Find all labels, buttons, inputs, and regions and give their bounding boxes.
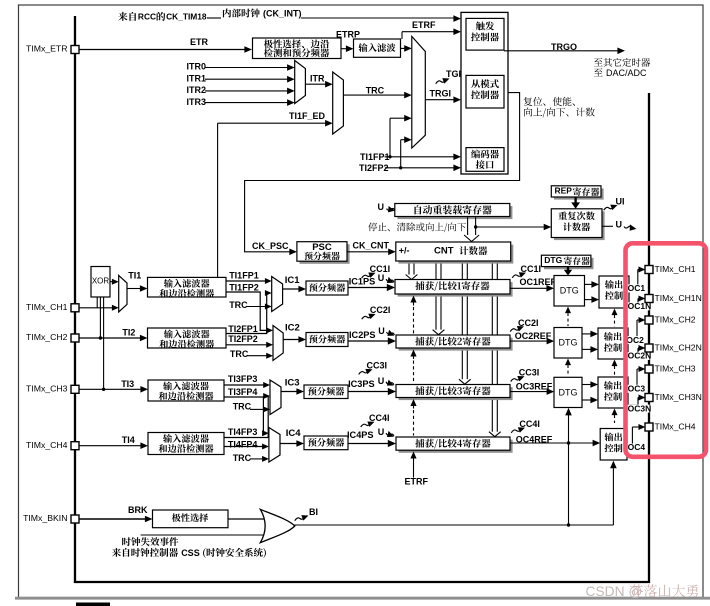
- svg-text:RCC: RCC: [138, 11, 156, 21]
- svg-text:U: U: [378, 427, 385, 437]
- svg-text:ETRF: ETRF: [412, 20, 436, 30]
- svg-text:TI1: TI1: [128, 271, 141, 281]
- svg-text:ETRF: ETRF: [405, 477, 429, 487]
- svg-text:CC3I: CC3I: [367, 360, 388, 370]
- svg-text:TIMx_CH1: TIMx_CH1: [655, 264, 696, 274]
- svg-text:IC3: IC3: [285, 378, 300, 389]
- svg-text:DTG: DTG: [560, 286, 579, 296]
- svg-text:BRK: BRK: [128, 505, 148, 515]
- svg-text:CC4I: CC4I: [369, 413, 390, 423]
- svg-text:U: U: [616, 219, 623, 229]
- svg-text:IC3PS: IC3PS: [348, 379, 375, 389]
- svg-text:TIMx_CH3: TIMx_CH3: [26, 383, 68, 393]
- svg-text:IC1PS: IC1PS: [349, 276, 376, 286]
- svg-text:DTG: DTG: [559, 338, 578, 348]
- svg-text:TI2FP2: TI2FP2: [359, 163, 389, 173]
- svg-text:TIMx_BKIN: TIMx_BKIN: [23, 513, 67, 523]
- svg-text:CK_PSC: CK_PSC: [252, 241, 289, 251]
- svg-text:CNT: CNT: [434, 246, 454, 257]
- svg-text:TRC: TRC: [233, 453, 252, 463]
- svg-text:OC3N: OC3N: [628, 403, 652, 413]
- svg-text:TI4FP3: TI4FP3: [228, 427, 258, 437]
- svg-text:U: U: [378, 202, 385, 212]
- svg-text:IC4PS: IC4PS: [347, 430, 374, 440]
- svg-text:OC1REF: OC1REF: [520, 277, 557, 287]
- svg-text:OC2: OC2: [626, 335, 644, 345]
- svg-text:REP: REP: [555, 186, 573, 196]
- svg-text:TIMx_CH4: TIMx_CH4: [26, 440, 68, 450]
- svg-text:ITR: ITR: [310, 73, 325, 83]
- svg-text:TRC: TRC: [230, 349, 249, 359]
- svg-text:TRC: TRC: [229, 300, 248, 310]
- svg-text:U: U: [378, 376, 385, 386]
- svg-text:TI2: TI2: [122, 328, 135, 338]
- svg-text:OC3: OC3: [628, 384, 646, 394]
- svg-text:ETR: ETR: [190, 37, 209, 47]
- svg-text:CK_TIM18: CK_TIM18: [166, 11, 207, 21]
- svg-text:IC2: IC2: [285, 323, 300, 334]
- svg-text:ETRP: ETRP: [336, 30, 360, 40]
- svg-text:TIMx_CH2: TIMx_CH2: [655, 314, 696, 324]
- svg-text:TI2FP2: TI2FP2: [228, 334, 258, 344]
- svg-text:TIMx_ETR: TIMx_ETR: [26, 44, 68, 54]
- svg-text:ITR3: ITR3: [187, 97, 207, 107]
- svg-text:TIMx_CH2N: TIMx_CH2N: [655, 342, 702, 352]
- svg-text:TI3FP3: TI3FP3: [228, 374, 258, 384]
- svg-text:TIMx_CH3: TIMx_CH3: [655, 363, 696, 373]
- svg-text:XOR: XOR: [92, 276, 110, 285]
- svg-text:DTG: DTG: [559, 387, 578, 397]
- svg-text:TRC: TRC: [233, 402, 252, 412]
- svg-text:BI: BI: [309, 507, 318, 517]
- svg-text:ITR2: ITR2: [187, 85, 207, 95]
- svg-text:TIMx_CH3N: TIMx_CH3N: [655, 392, 702, 402]
- svg-text:UI: UI: [616, 196, 625, 206]
- svg-text:+/-: +/-: [399, 246, 410, 256]
- svg-text:ITR1: ITR1: [187, 73, 207, 83]
- svg-text:TIMx_CH2: TIMx_CH2: [26, 332, 68, 342]
- svg-text:DAC/ADC: DAC/ADC: [606, 68, 647, 78]
- svg-text:(CK_INT): (CK_INT): [263, 8, 302, 18]
- svg-text:DTG: DTG: [544, 255, 562, 265]
- svg-text:TI1FP1: TI1FP1: [229, 271, 259, 281]
- svg-text:U: U: [378, 273, 385, 283]
- svg-text:IC4: IC4: [286, 428, 302, 439]
- svg-text:IC1: IC1: [285, 275, 301, 286]
- svg-text:TIMx_CH1: TIMx_CH1: [26, 302, 68, 312]
- svg-text:OC1: OC1: [628, 283, 646, 293]
- svg-text:ITR0: ITR0: [187, 62, 207, 72]
- svg-text:CK_CNT: CK_CNT: [353, 241, 390, 251]
- svg-text:TI4FP4: TI4FP4: [228, 440, 258, 450]
- svg-text:CC2I: CC2I: [370, 305, 391, 315]
- svg-text:OC2REF: OC2REF: [515, 331, 552, 341]
- svg-text:OC4: OC4: [628, 442, 646, 452]
- svg-text:TIMx_CH4: TIMx_CH4: [655, 421, 696, 431]
- svg-text:PSC: PSC: [312, 242, 332, 253]
- svg-text:TI1F_ED: TI1F_ED: [289, 111, 326, 121]
- svg-text:U: U: [378, 326, 385, 336]
- svg-text:TGI: TGI: [446, 69, 461, 79]
- svg-text:TI4: TI4: [122, 435, 135, 445]
- svg-text:TIMx_CH1N: TIMx_CH1N: [655, 293, 702, 303]
- svg-text:IC2PS: IC2PS: [349, 330, 376, 340]
- svg-text:TRC: TRC: [366, 85, 385, 95]
- svg-text:CSS: CSS: [181, 548, 200, 558]
- svg-text:TI3FP4: TI3FP4: [228, 387, 258, 397]
- svg-text:TI2FP1: TI2FP1: [228, 324, 258, 334]
- svg-text:TRGO: TRGO: [551, 42, 577, 52]
- svg-text:TRGI: TRGI: [430, 88, 452, 98]
- svg-text:TI3: TI3: [121, 379, 134, 389]
- svg-text:TI1FP2: TI1FP2: [229, 283, 259, 293]
